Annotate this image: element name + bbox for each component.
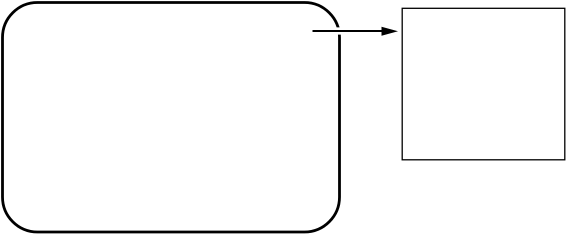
- arrowhead: [382, 27, 399, 36]
- rounded rectangle box: [3, 3, 340, 233]
- wire white casing over border crossing: [313, 27, 398, 34]
- arrow shaft: [313, 30, 384, 32]
- square box: [402, 8, 565, 160]
